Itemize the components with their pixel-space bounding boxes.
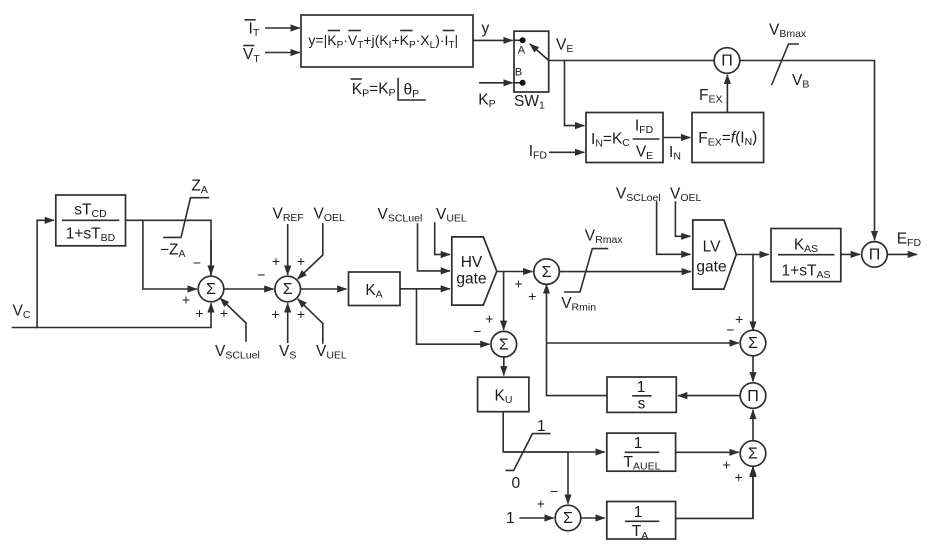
svg-text:VC: VC (13, 303, 31, 322)
svg-text:VS: VS (279, 343, 296, 362)
svg-text:A: A (518, 45, 526, 57)
svg-text:VE: VE (556, 37, 573, 56)
svg-text:Σ: Σ (206, 281, 216, 298)
svg-text:VT: VT (243, 46, 260, 65)
svg-text:−ZA: −ZA (160, 242, 186, 261)
svg-text:0: 0 (512, 475, 521, 492)
svg-text:y: y (482, 20, 490, 37)
svg-text:FEX: FEX (699, 87, 722, 106)
svg-text:+: + (297, 306, 305, 322)
svg-text:KP: KP (478, 92, 495, 111)
svg-text:+: + (485, 310, 493, 326)
svg-text:+: + (528, 288, 536, 304)
svg-text:Π: Π (721, 53, 733, 70)
svg-text:y=|KP·VT+j(KI+KP·XL)·IT|: y=|KP·VT+j(KI+KP·XL)·IT| (308, 32, 458, 51)
svg-text:−: − (257, 266, 265, 282)
svg-text:Π: Π (869, 247, 881, 264)
svg-text:SW1: SW1 (514, 93, 545, 112)
svg-text:VSCLuel: VSCLuel (215, 343, 260, 362)
svg-text:+: + (722, 457, 730, 473)
svg-text:+: + (182, 292, 190, 308)
svg-text:VSCLuel: VSCLuel (378, 206, 423, 225)
svg-text:Σ: Σ (542, 264, 552, 281)
svg-text:+: + (735, 469, 743, 485)
svg-text:VOEL: VOEL (670, 186, 702, 205)
svg-text:−: − (550, 483, 558, 499)
svg-text:+: + (735, 311, 743, 327)
svg-text:+: + (195, 305, 203, 321)
svg-text:VREF: VREF (273, 206, 304, 225)
svg-text:1: 1 (634, 435, 643, 452)
svg-text:HV: HV (461, 254, 483, 271)
svg-text:−: − (193, 255, 201, 271)
svg-text:VUEL: VUEL (436, 206, 467, 225)
svg-text:EFD: EFD (897, 231, 922, 250)
svg-text:+: + (271, 306, 279, 322)
svg-text:+: + (537, 496, 545, 512)
svg-text:Σ: Σ (748, 335, 758, 352)
svg-text:−: − (473, 323, 481, 339)
svg-text:1: 1 (634, 504, 643, 521)
svg-text:gate: gate (456, 271, 486, 288)
svg-text:VBmax: VBmax (769, 22, 807, 41)
svg-text:VSCLoel: VSCLoel (616, 186, 661, 205)
svg-text:+: + (220, 305, 228, 321)
svg-text:Σ: Σ (563, 510, 573, 527)
svg-text:−: − (726, 321, 734, 337)
svg-text:+: + (297, 253, 305, 269)
svg-text:Σ: Σ (283, 281, 293, 298)
svg-text:1: 1 (637, 379, 646, 396)
svg-text:VB: VB (792, 72, 809, 91)
svg-text:Σ: Σ (499, 336, 509, 353)
svg-text:VUEL: VUEL (316, 343, 347, 362)
svg-text:θP: θP (404, 82, 420, 101)
svg-text:s: s (638, 395, 646, 412)
svg-text:1: 1 (506, 510, 515, 527)
svg-text:VRmin: VRmin (561, 295, 596, 314)
svg-text:KP=KP: KP=KP (352, 81, 396, 100)
svg-text:IT: IT (249, 20, 260, 39)
svg-text:ZA: ZA (191, 178, 207, 197)
svg-text:Π: Π (747, 388, 759, 405)
svg-text:VOEL: VOEL (314, 206, 346, 225)
svg-text:1: 1 (537, 418, 546, 435)
svg-text:Σ: Σ (748, 446, 758, 463)
svg-text:gate: gate (696, 259, 726, 276)
svg-text:+: + (272, 253, 280, 269)
svg-text:LV: LV (703, 239, 721, 256)
svg-text:VRmax: VRmax (585, 228, 624, 247)
svg-text:IN: IN (669, 144, 681, 163)
svg-text:IFD: IFD (529, 143, 548, 162)
svg-text:B: B (515, 67, 522, 79)
svg-text:+: + (514, 276, 522, 292)
